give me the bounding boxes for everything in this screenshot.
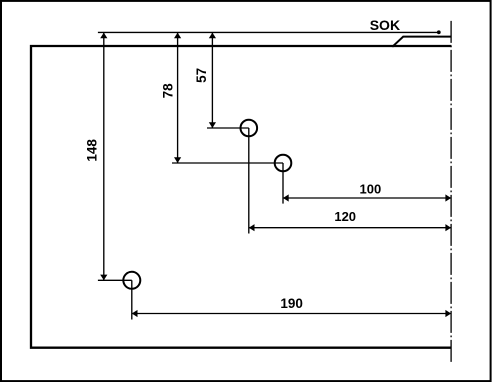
svg-text:190: 190 (280, 296, 303, 311)
svg-text:148: 148 (84, 139, 99, 162)
svg-text:120: 120 (334, 209, 356, 224)
svg-text:SOK: SOK (370, 17, 400, 33)
svg-text:57: 57 (194, 68, 209, 83)
svg-text:100: 100 (360, 181, 382, 196)
svg-text:78: 78 (160, 83, 175, 99)
